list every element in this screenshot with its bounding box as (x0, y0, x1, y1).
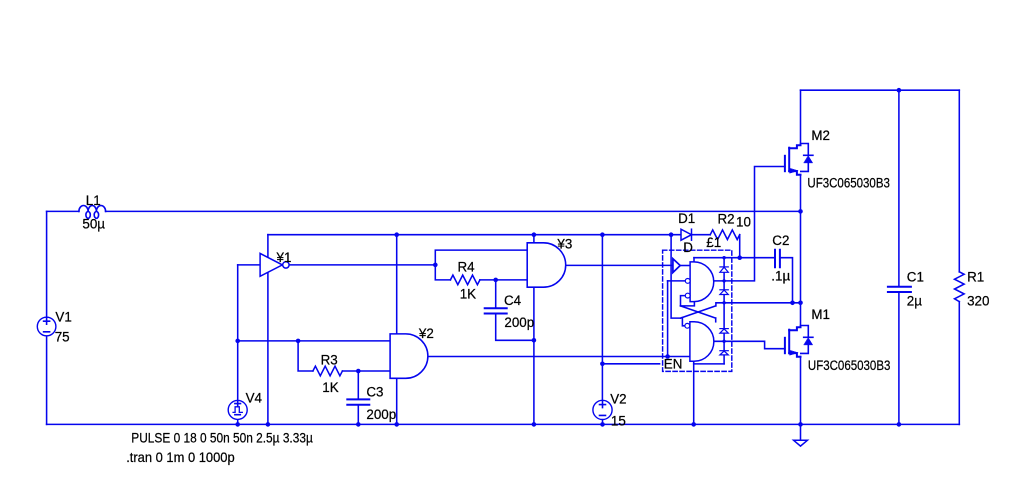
inverter Y1 (260, 253, 289, 276)
diode D1 (681, 229, 692, 240)
wire: boot rail from upper gate to R2/C2 node (694, 257, 740, 259)
wire: Y2 output into driver LIN input (428, 356, 690, 358)
wire: cross-couple diagonal 1 (681, 306, 716, 318)
wire: M2 drain to top output rail (800, 90, 802, 145)
capacitor C3 (347, 399, 369, 404)
wire: M1 source to bottom rail (800, 357, 802, 425)
svg-text:C3: C3 (366, 384, 383, 399)
wire: riser through gate Y2 (396, 235, 398, 425)
svg-text:¥2: ¥2 (418, 326, 434, 341)
wire: L1 right lead to switch node (106, 210, 801, 212)
svg-text:D1: D1 (678, 211, 695, 226)
clamp diode 1 (720, 267, 728, 272)
svg-text:75: 75 (55, 330, 70, 345)
wire: stub to bubble input 1 (668, 280, 686, 282)
and-gate Y2 (390, 334, 428, 378)
svg-text:.tran 0 1m 0 1000p: .tran 0 1m 0 1000p (126, 450, 235, 465)
svg-text:M1: M1 (811, 307, 830, 322)
svg-text:10: 10 (736, 215, 751, 230)
svg-text:R4: R4 (458, 259, 476, 274)
wire: riser from top rail to bottom rail through inverter (267, 235, 269, 425)
and-gate Y3 (527, 243, 566, 287)
svg-text:D: D (683, 240, 693, 255)
svg-text:2µ: 2µ (907, 293, 922, 308)
wire: V4 node to Y2 upper input (238, 340, 390, 342)
driver lower and-gate (690, 322, 714, 362)
wire: HO output to M2 gate (714, 167, 785, 281)
svg-text:.1µ: .1µ (771, 268, 790, 283)
svg-text:320: 320 (967, 293, 989, 308)
wire: C1 bottom lead (898, 292, 900, 424)
wire: column bottom to COM (694, 363, 724, 365)
wire: V4 bottom stub (237, 419, 239, 424)
svg-text:C2: C2 (772, 233, 789, 248)
wire: driver internal rail C (667, 281, 669, 357)
wire: node B down to R3 left lead (298, 341, 313, 371)
driver upper and-gate (690, 262, 714, 302)
wire: R3 right lead to Y2 lower input (342, 370, 390, 372)
driver bubble input 2 (685, 293, 690, 298)
wire: COM pin to bottom rail (693, 361, 695, 424)
svg-text:R2: R2 (718, 212, 735, 227)
svg-text:V1: V1 (55, 309, 71, 324)
mosfet M2 (785, 144, 813, 175)
ground (794, 440, 808, 446)
resistor R1 (955, 272, 965, 302)
wire: C4 bottom lead to riser (496, 314, 534, 341)
wire: R2 right lead drop (739, 235, 741, 258)
resistor R3 (313, 366, 343, 376)
wire: V2 riser to top rail (601, 235, 603, 401)
wire: V1 minus down to bottom rail (46, 336, 48, 425)
inductor L1 (79, 205, 106, 218)
wire: node A down to R4 left lead (435, 265, 450, 280)
resistor R4 (450, 275, 480, 285)
capacitor C1 (888, 287, 911, 292)
driver bubble input 3 (685, 323, 690, 328)
wire: cross to lower gate top (715, 318, 717, 322)
wire: left vertical from L1 corner down to V1 plus (46, 211, 48, 317)
wire: C2 right lead down to VS (780, 258, 793, 303)
wire: upper gate bottom pin to cross (681, 302, 695, 306)
wire: stub to bubble input 2 (681, 296, 686, 306)
svg-text:R3: R3 (321, 353, 338, 368)
wire: cross-couple diagonal 2 (681, 306, 716, 318)
svg-text:¥1: ¥1 (276, 250, 292, 265)
wire: C3 bottom lead (357, 405, 359, 424)
driver input buffer (673, 259, 680, 273)
svg-text:UF3C065030B3: UF3C065030B3 (808, 358, 891, 373)
voltage source V4 (pulse) (228, 400, 247, 419)
wire: Y3 output to driver D input (566, 264, 673, 266)
resistor R2 (710, 230, 740, 240)
gate driver U1 dashed boundary (663, 250, 732, 371)
svg-text:EN: EN (664, 357, 683, 372)
driver bubble input 1 (685, 279, 690, 284)
svg-text:V4: V4 (246, 390, 263, 405)
svg-text:15: 15 (611, 413, 626, 428)
wire: driver internal rail A (671, 235, 680, 318)
wire: LO output to M1 gate (714, 341, 785, 348)
svg-text:C1: C1 (907, 270, 924, 285)
wire: C4 top lead (495, 280, 497, 308)
svg-text:R1: R1 (967, 270, 984, 285)
wire: R4 right lead to Y3 lower input (480, 279, 527, 281)
wire: top logic rail (268, 234, 681, 236)
clamp diode 2 (720, 290, 728, 295)
svg-text:PULSE 0 18 0 50n 50n 2.5µ 3.33: PULSE 0 18 0 50n 50n 2.5µ 3.33µ (131, 430, 313, 445)
wire: C3 top lead (357, 371, 359, 399)
svg-text:L1: L1 (86, 193, 101, 208)
svg-text:50µ: 50µ (82, 217, 105, 232)
wire: C2 left lead (740, 257, 775, 259)
voltage source V2 (593, 400, 612, 419)
wire: D1 cathode to R2 (692, 234, 711, 236)
wire: top output rail (801, 89, 960, 91)
wire: bottom ground rail (47, 423, 960, 425)
wire: inverter input (238, 264, 260, 266)
svg-text:M2: M2 (811, 128, 830, 143)
wire: R1 top lead (958, 90, 960, 272)
wire: EN feed from V2 node (602, 363, 659, 365)
svg-text:200p: 200p (504, 315, 534, 330)
voltage source V1 (37, 317, 56, 336)
wire: stub to bubble input 3 (682, 318, 684, 326)
svg-text:¥3: ¥3 (556, 236, 572, 251)
svg-text:C4: C4 (504, 293, 522, 308)
wire: switch node vertical M2 source to M1 drain (800, 175, 802, 328)
wire: ground stub (800, 424, 802, 439)
wire: C1 top lead (898, 90, 900, 286)
capacitor C2 (775, 250, 780, 268)
svg-text:1K: 1K (322, 380, 338, 395)
svg-text:UF3C065030B3: UF3C065030B3 (807, 175, 890, 190)
wire: node A up to Y3 upper input (435, 250, 527, 265)
wire: V4 riser (237, 265, 239, 401)
wire: riser through gate Y3 (533, 235, 535, 425)
mosfet M1 (785, 326, 813, 357)
wire: L1 left lead (47, 210, 79, 212)
svg-text:200p: 200p (366, 407, 396, 422)
wire: upper gate top pin (693, 258, 695, 262)
wire: buffer output stub (680, 265, 690, 267)
wire: inverter output to node A (289, 264, 435, 266)
capacitor C4 (485, 308, 507, 313)
wire: VS line to switch node (716, 303, 801, 306)
svg-text:£1: £1 (706, 235, 721, 250)
clamp diode 4 (720, 351, 728, 355)
svg-text:1K: 1K (460, 287, 476, 302)
wire: clamp diode column (723, 258, 725, 364)
svg-text:V2: V2 (610, 392, 626, 407)
wire: R1 bottom lead (958, 302, 960, 425)
clamp diode 3 (720, 329, 728, 334)
wire: V2 bottom stub (602, 419, 604, 424)
